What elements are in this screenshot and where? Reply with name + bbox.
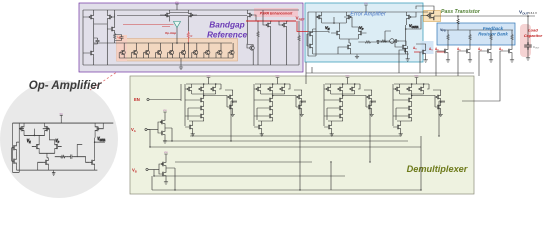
error amplifier block background [305,3,423,62]
power VDD inverter A [163,110,168,114]
transistor MS1 (switch A1) [420,48,426,55]
transistor MB6 (PMOS top pair right) [188,11,194,18]
transistor MB1 (PMOS mirror left) [88,13,94,20]
transistor QB10 (PNP bandgap array) [228,43,234,58]
svg-text:Pass Transistor: Pass Transistor [441,9,481,15]
resistor RF top [457,18,459,26]
wire: bank gate riser jog [462,76,500,101]
wire: BJT emitter bus [115,42,232,44]
wire: inv A gates/out [158,122,172,133]
svg-text:Resistor Bank: Resistor Bank [478,32,508,37]
wire: red gate stubs A0 A1 [414,51,445,53]
wire: VB input [146,168,148,170]
transistor MB7 (PMOS right branch) [247,11,253,18]
power VDD inverter B [164,152,169,156]
feedback resistor bank box [437,23,515,45]
wire: VREF to VN gate [308,32,329,34]
ground inverter B [164,180,168,184]
wire: EN input [147,98,149,100]
demux cell 4 [393,76,445,137]
capacitor CLOAD [524,42,532,50]
wire: RB2 branch to collector line [187,43,189,58]
wire: bus VA inverted [163,128,408,141]
error amplifier circuit [307,3,428,59]
wire: VOUT to load cap [527,16,529,56]
node: op-amp out to bus [176,42,178,44]
transistor MP (pass PMOS) [426,11,433,20]
svg-text:Op- Amplifier: Op- Amplifier [29,80,102,92]
svg-text:PSRR Enhancement: PSRR Enhancement [260,12,293,16]
callout dashed line from op-amp to bubble [90,33,175,90]
svg-text:EN: EN [134,97,140,102]
demux cell 3 [324,76,376,137]
wire: bus VA raw [147,130,421,148]
svg-text:Capacitor: Capacitor [524,33,543,38]
current source ring on compensation branch [390,39,395,44]
svg-text:COUT: COUT [533,45,540,50]
transistor QB1 (PNP bandgap array) [119,43,125,58]
ground inverter A [163,139,167,143]
wire: BJT collector bus [119,58,233,65]
wire: bandgap ground rail [83,45,299,65]
feedback bank column 0 [436,30,450,76]
svg-text:Error Amplifier: Error Amplifier [350,12,387,18]
demux cell 2 [254,76,306,137]
feedback bank column 1 [458,30,472,76]
svg-text:VA: VA [131,127,136,133]
node: RB2 to bus [188,42,190,44]
wire: VA input [145,128,147,130]
wire: inv B gates/out [159,164,175,174]
svg-text:Bandgap: Bandgap [209,19,245,29]
demux cell 1 [185,76,237,137]
wire: bus VB raw [154,170,345,177]
node: VOUT junctions [457,15,459,17]
svg-text:Reference: Reference [207,29,248,39]
ground load [526,56,530,60]
wire: cell1 drop [231,101,237,141]
transistor QB5 (PNP bandgap array) [168,43,174,58]
wire: demux top rail [306,62,474,84]
resistor RB1 [114,32,116,40]
svg-text:Op-Amp: Op-Amp [165,31,176,35]
resistor RB3 [257,30,259,38]
op-amp U1 [174,22,181,28]
transistor MB5 (PMOS top pair left) [164,11,170,18]
resistor RB2 (red) [187,31,189,39]
transistor MS0 (switch A0) [402,46,408,53]
resistor RB4 [298,34,300,42]
wire: bus cell-bottom tie [190,134,401,136]
wire: left branch to emitter bus [94,42,115,44]
svg-text:VFB: VFB [440,28,446,33]
transistor QB11 (NPN right) [247,44,254,56]
wire: cell2 drop [300,101,306,190]
wire: bus risers right [420,136,422,190]
feedback bank column 3 [500,30,514,76]
ground switch A0 [406,57,410,61]
transistor QB4 (PNP bandgap array) [156,43,162,58]
wire: pair gate tie [160,13,197,16]
capacitor Cz (compensation) [393,39,399,43]
svg-text:Demultiplexer: Demultiplexer [407,164,468,174]
op-amplifier bubble circuit [12,113,114,175]
transistor MIA1 (inv A PMOS) [159,118,165,125]
wire: RF into bank / VFB node [441,16,513,30]
wire: bandgap left rail [82,10,84,65]
wire: bus mid [175,161,312,163]
wire: cell4 drop [439,101,445,136]
transistor QB7 (PNP bandgap array) [192,43,198,58]
transistor MB2 (PMOS mirror right) [107,13,113,20]
svg-text:VB: VB [132,168,137,174]
capacitor CB1 [120,35,124,41]
transistor MB9 (PSRR PMOS b) [281,21,287,28]
pass transistor highlight [424,11,441,22]
PSRR enhancement highlight [254,8,298,17]
power VDD symbol bandgap [175,2,180,6]
wire: bus VB inverted [152,168,421,190]
transistor MB4 (NMOS left lower) [88,49,94,56]
feedback bank column 2 [479,30,493,76]
transistor MIB2 (inv B NMOS) [160,170,166,177]
transistor QB6 (PNP bandgap array) [180,43,186,58]
bandgap BJT array region [117,39,238,62]
wire: QB11 connect [247,45,253,66]
node: red rail taps [257,20,259,22]
svg-text:Feedback: Feedback [483,26,504,31]
resistor Rz (compensation) [380,40,388,42]
wire: pass transistor connections [416,6,434,29]
wire: op-amp output [176,28,178,44]
wire: mirror cross ties [94,24,109,65]
wire: op-amp inputs (red) [123,25,174,27]
svg-text:R: R [191,34,193,38]
wire: VREF into error amp (red) [297,21,308,32]
wire: PSRR red rail VREF [246,20,296,22]
wire: compensation branch [376,41,406,46]
wire: bandgap VDD top rail [83,9,299,11]
ground bandgap [179,65,183,69]
transistor MB8 (PSRR PMOS a) [265,21,271,28]
ground switch A1 [424,58,428,62]
op-amplifier zoom bubble [0,80,118,198]
wire: bandgap bias line [117,15,247,17]
wire: VOUT rail [434,15,535,17]
capacitor CB2 [96,38,100,44]
transistor QB9 (PNP bandgap array) [216,43,222,58]
demultiplexer block background [130,76,474,194]
transistor QB3 (PNP bandgap array) [143,43,149,58]
bandgap left pink strip [117,35,128,61]
load capacitor highlight bar [520,24,531,57]
svg-text:Load: Load [528,28,538,33]
transistor MB3 (NMOS bias) [109,25,115,32]
wire: switch gate drops [399,50,420,73]
switch A1 highlight [421,41,434,54]
wire: cell3 drop [331,101,376,190]
transistor QB8 (PNP bandgap array) [204,43,210,58]
bandgap reference block background [79,3,303,72]
transistor MIB1 (inv B PMOS) [160,160,166,167]
node: bus junction dots [230,140,231,141]
transistor QB2 (PNP bandgap array) [131,43,137,58]
svg-text:VOUT0.5-1 V: VOUT0.5-1 V [519,10,537,16]
transistor MIA2 (inv A NMOS) [159,129,165,136]
